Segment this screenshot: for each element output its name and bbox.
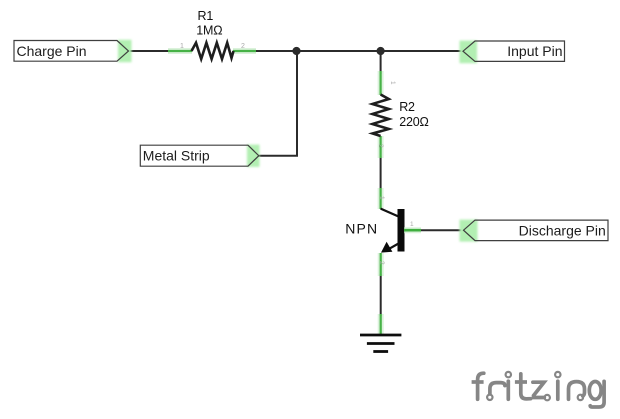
wire: junction B down to R2 pin1 bbox=[380, 51, 382, 74]
net label Charge Pin highlight bbox=[118, 40, 132, 62]
svg-text:2: 2 bbox=[377, 144, 384, 148]
transistor Q1 emitter leg bbox=[378, 253, 384, 276]
letter i stem 2 bbox=[556, 381, 560, 399]
wire: Metal Strip tip to corner bbox=[259, 51, 298, 156]
ring z bbox=[545, 395, 550, 400]
letter r bbox=[490, 383, 505, 394]
svg-text:Input Pin: Input Pin bbox=[507, 43, 562, 59]
resistor R1 zigzag bbox=[192, 43, 234, 59]
wire: R1 pin2 to junction A bbox=[255, 50, 297, 52]
wire: Q1 emitter to ground bbox=[380, 274, 382, 316]
junction B bbox=[377, 47, 385, 55]
resistor R2 zigzag bbox=[372, 95, 388, 137]
ring r bbox=[487, 395, 492, 400]
ground pin leg bbox=[378, 314, 384, 334]
svg-text:2: 2 bbox=[378, 261, 385, 265]
letter f bbox=[478, 373, 484, 399]
resistor R2 pin 1 leg bbox=[378, 71, 384, 95]
wire: junction B to Input Pin tip bbox=[381, 50, 463, 52]
svg-text:1: 1 bbox=[180, 43, 184, 50]
net label Input Pin bbox=[463, 41, 565, 61]
letter t bbox=[521, 374, 531, 399]
letter g bbox=[589, 382, 601, 400]
svg-text:Charge Pin: Charge Pin bbox=[17, 43, 87, 59]
svg-text:1: 1 bbox=[410, 221, 414, 228]
wire: R2 pin2 to Q1 collector leg bbox=[380, 156, 382, 189]
net label Input Pin highlight bbox=[460, 41, 478, 64]
letter i dot ring 2 bbox=[555, 372, 560, 377]
wire: Q1 base to Discharge Pin tip bbox=[420, 229, 464, 231]
svg-text:R2: R2 bbox=[399, 100, 415, 114]
transistor Q1 emitter arrow bbox=[381, 242, 392, 253]
net label Metal Strip bbox=[140, 145, 258, 166]
letter i stem 1 bbox=[506, 381, 510, 399]
transistor Q1 base leg bbox=[404, 227, 421, 233]
svg-text:1: 1 bbox=[389, 81, 396, 85]
junction A bbox=[292, 47, 300, 55]
wire: junction A to junction B bbox=[297, 50, 381, 52]
svg-text:2: 2 bbox=[241, 43, 245, 50]
resistor R2 pin 2 leg bbox=[378, 136, 384, 158]
svg-text:1MΩ: 1MΩ bbox=[196, 23, 222, 37]
svg-text:NPN: NPN bbox=[345, 220, 378, 236]
net label Discharge Pin bbox=[464, 220, 609, 241]
ring n bbox=[578, 395, 583, 400]
svg-text:Metal Strip: Metal Strip bbox=[143, 148, 210, 164]
ground symbol bbox=[360, 335, 401, 352]
transistor Q1 collector leg bbox=[378, 188, 384, 209]
letter n bbox=[569, 382, 585, 400]
letter z bbox=[533, 382, 544, 397]
transistor Q1 emitter diagonal bbox=[389, 244, 399, 250]
net label Metal Strip highlight bbox=[247, 145, 260, 167]
svg-text:1: 1 bbox=[378, 196, 385, 200]
fritzing watermark logo bbox=[472, 372, 604, 407]
svg-text:220Ω: 220Ω bbox=[399, 115, 428, 129]
wire: Charge Pin tip to R1 pin1 bbox=[129, 50, 170, 52]
letter i dot ring 1 bbox=[506, 372, 511, 377]
svg-text:R1: R1 bbox=[198, 9, 214, 23]
svg-text:Discharge Pin: Discharge Pin bbox=[519, 222, 606, 238]
transistor Q1 collector diagonal bbox=[381, 209, 399, 217]
net label Discharge Pin highlight bbox=[460, 220, 478, 242]
resistor R1 pin 1 leg bbox=[168, 48, 192, 54]
net label Charge Pin bbox=[14, 41, 129, 62]
resistor R1 pin 2 leg bbox=[233, 48, 256, 54]
transistor Q1 base bar bbox=[398, 209, 405, 252]
